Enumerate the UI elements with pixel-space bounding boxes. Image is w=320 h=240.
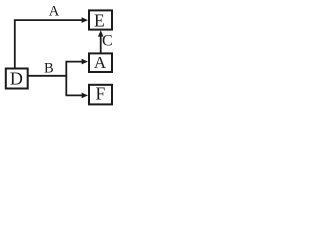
wire junction to A — [66, 61, 83, 63]
wire D to E (vertical rise from D top) — [14, 20, 16, 68]
box A — [89, 53, 112, 72]
box E — [89, 10, 112, 30]
arrowhead into E — [82, 17, 88, 23]
svg-text:A: A — [49, 4, 60, 20]
background — [0, 0, 121, 109]
junction vertical splitter — [65, 62, 67, 96]
arrowhead into F — [82, 93, 88, 99]
wire D to E (horizontal run into E) — [14, 19, 83, 21]
wire B from D to junction — [29, 75, 68, 77]
arrowhead into A — [82, 59, 88, 65]
wire A to E (vertical) — [100, 35, 102, 53]
box D — [6, 68, 28, 88]
box F — [89, 83, 112, 104]
svg-text:B: B — [44, 60, 54, 76]
wire junction to F — [66, 94, 83, 96]
svg-text:D: D — [10, 68, 23, 88]
arrowhead into E bottom — [98, 30, 104, 36]
svg-text:C: C — [102, 33, 113, 50]
svg-text:E: E — [94, 10, 105, 30]
svg-text:F: F — [96, 83, 106, 103]
svg-text:A: A — [94, 53, 107, 72]
